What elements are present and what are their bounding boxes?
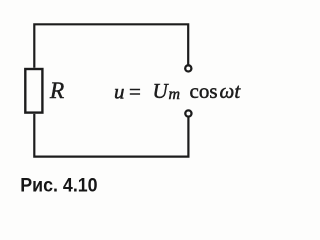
terminal node (top, open circle) bbox=[185, 65, 191, 71]
svg-text:Рис. 4.10: Рис. 4.10 bbox=[20, 175, 97, 197]
svg-text:R: R bbox=[49, 78, 64, 104]
wire bottom (left vertical + bottom horizontal + right vertical up to terminal) bbox=[34, 114, 188, 157]
terminal node (bottom, open circle) bbox=[185, 110, 191, 116]
resistor R1 body bbox=[25, 69, 42, 113]
wire top (left vertical + top horizontal + right vertical down to terminal) bbox=[34, 24, 188, 68]
svg-text:u = U m cos: u = U m cos ωt bbox=[114, 79, 241, 104]
